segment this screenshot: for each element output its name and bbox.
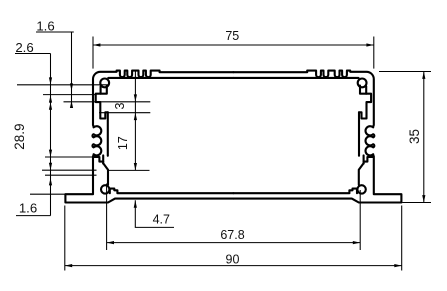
extension line right bbox=[359, 190, 361, 250]
dimension line bbox=[65, 265, 402, 267]
svg-text:4.7: 4.7 bbox=[153, 212, 170, 226]
extension line right bbox=[373, 37, 375, 69]
dimension line bbox=[107, 242, 361, 244]
extension line top bbox=[379, 71, 431, 73]
extension line left bbox=[64, 206, 66, 271]
svg-text:90: 90 bbox=[226, 252, 240, 266]
svg-text:28.9: 28.9 bbox=[12, 123, 27, 149]
svg-text:1.6: 1.6 bbox=[19, 201, 37, 216]
arrow up at 102.4 bbox=[49, 102, 52, 109]
flange top extension y=194.2 bbox=[30, 193, 65, 195]
slot line right y=170.4 bbox=[108, 169, 150, 171]
arrow right bbox=[394, 264, 401, 267]
svg-text:17: 17 bbox=[116, 136, 130, 150]
profile right half (mirror) bbox=[233, 71, 401, 203]
arrow up at 200.3 bbox=[134, 200, 137, 207]
svg-text:67.8: 67.8 bbox=[220, 228, 244, 242]
arrow left bbox=[93, 43, 100, 46]
extension line left bbox=[92, 37, 94, 69]
svg-text:3: 3 bbox=[113, 102, 127, 109]
lower slot top y=169.4 bbox=[42, 169, 97, 171]
arrow down bbox=[422, 195, 425, 202]
dimension line bbox=[93, 44, 374, 46]
arrow up at 100.6 bbox=[70, 101, 73, 108]
svg-text:35: 35 bbox=[407, 129, 422, 144]
arrow down at 170.4 bbox=[134, 163, 137, 170]
svg-text:1.6: 1.6 bbox=[36, 19, 54, 34]
arrow left bbox=[107, 241, 114, 244]
arrow down at 157.0 bbox=[49, 150, 52, 157]
arrow up at 95.2 bbox=[49, 95, 52, 102]
extension line left bbox=[106, 184, 108, 251]
arrow up at 112.7 bbox=[134, 113, 137, 120]
svg-text:75: 75 bbox=[225, 29, 239, 43]
arrow right bbox=[366, 43, 373, 46]
arrow down at 84.8 bbox=[49, 77, 52, 84]
dimension line bbox=[423, 72, 425, 203]
arrow left bbox=[65, 264, 72, 267]
extension line bottom bbox=[402, 202, 431, 204]
lip line y=101.8 bbox=[64, 101, 151, 103]
step line y=94.6 bbox=[43, 94, 97, 96]
arrow down at 170.2 bbox=[49, 163, 52, 170]
lower slot bottom y=174.4 bbox=[45, 174, 97, 176]
arrow down at 90.8 bbox=[70, 83, 73, 90]
arrow right bbox=[353, 241, 360, 244]
extension line right bbox=[401, 206, 403, 271]
lower lip line y=158.8 bbox=[45, 156, 95, 158]
svg-text:2.6: 2.6 bbox=[15, 40, 33, 55]
profile left half bbox=[65, 71, 233, 203]
arrow up bbox=[422, 72, 425, 79]
slot line y=112.7 bbox=[99, 112, 150, 114]
arrow down at 101.8 bbox=[134, 94, 137, 101]
arrow up at 178 bbox=[49, 178, 52, 185]
boss centerline y=84.8 bbox=[17, 84, 108, 86]
